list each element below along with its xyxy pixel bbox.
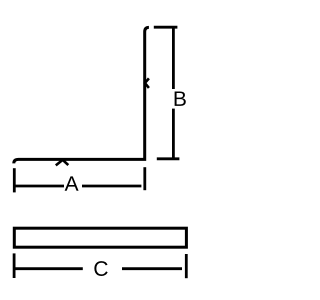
dimension A extension line left xyxy=(13,168,16,192)
label B xyxy=(175,91,186,105)
dimension A extension line right xyxy=(143,167,146,190)
dimension C extension line right xyxy=(185,254,188,278)
dimension C extension line left xyxy=(13,253,16,278)
arrowhead on vertical leg xyxy=(145,78,149,88)
flat bar rectangle xyxy=(14,228,186,247)
dimension A line right segment xyxy=(82,185,141,188)
arrowhead on horizontal leg xyxy=(56,160,69,166)
dimension B extension line bottom xyxy=(157,157,180,160)
dimension B line bottom segment xyxy=(172,109,175,159)
angle profile (L-shaped section line with hooked ends) xyxy=(14,27,149,163)
dimension A line left segment xyxy=(15,185,64,188)
dimension C line right segment xyxy=(122,267,182,270)
label C xyxy=(94,261,107,276)
dimension C line left segment xyxy=(15,267,83,270)
dimension B extension line top xyxy=(154,26,178,29)
label A xyxy=(65,176,79,190)
dimension B line top segment xyxy=(172,27,175,89)
